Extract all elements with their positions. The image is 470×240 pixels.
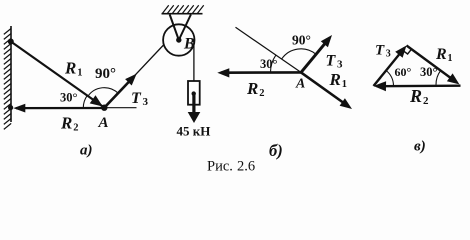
(b) force R2 shaft [221,71,301,74]
wall hatching [4,28,11,129]
force T3 arrow shaft [104,80,130,108]
label A [98,115,109,131]
svg-text:A: A [295,76,305,91]
pin joint at wall (R2 anchor) [8,105,13,110]
svg-text:45 кН: 45 кН [177,123,211,138]
(b) label R2 [246,79,264,99]
svg-text:R: R [246,79,258,98]
force R2 line [16,107,104,109]
(v) force R2 shaft (triangle bottom) [377,84,461,87]
svg-text:T: T [375,43,385,59]
caption a) [80,143,93,159]
label 45 kN [177,123,211,138]
(b) thin reference line through A [236,27,302,72]
(v) arc of 30 degree angle [436,71,441,85]
svg-text:T: T [326,53,337,70]
pin joint at wall (R1 anchor) [8,39,14,45]
(v) arrowhead T3 [395,46,406,58]
weight block [188,81,200,105]
svg-text:в): в) [414,139,426,155]
(b) arc of 90 degree angle [282,49,316,59]
(b) force R1 shaft [301,72,348,106]
(b) arrowhead R2 [217,68,229,77]
(v) arrowhead R1 [447,73,460,84]
(v) label R2 [409,86,429,107]
(b) label 30deg [260,57,278,71]
figure caption Ris. 2.6 [207,159,255,175]
weight force arrowhead [188,112,201,123]
svg-text:1: 1 [448,53,453,64]
svg-text:30°: 30° [420,65,438,79]
(v) arrowhead R2 [374,81,387,91]
(b) label 90deg [292,33,311,48]
svg-text:2: 2 [423,95,429,107]
(b) force T3 shaft [301,40,328,73]
svg-text:3: 3 [143,96,149,108]
arc of 90 degree angle at A [88,88,118,97]
svg-text:30°: 30° [60,91,78,105]
pulley bracket left arm [170,15,179,41]
arc of 30 degree angle at A [83,96,87,108]
weight center dot [192,91,196,95]
ceiling support line [162,13,203,15]
ceiling hatching [163,5,204,13]
rope from A to pulley B [104,45,163,108]
(v) force R1 shaft [407,46,456,82]
svg-text:A: A [98,115,109,131]
pulley axle dot [176,37,181,42]
node A (dot) [101,105,107,111]
(v) label 60deg [395,65,412,79]
svg-text:Рис.: Рис. [207,159,233,175]
svg-text:1: 1 [342,79,347,90]
svg-text:60°: 60° [395,65,412,79]
svg-text:2: 2 [73,123,78,134]
horizontal reference line at A [104,107,136,109]
(v) right angle mark [403,49,412,54]
label 30deg [60,91,78,105]
force R1 rod/line [11,42,104,107]
label R1 [64,59,82,79]
caption b) [269,141,283,160]
svg-text:б): б) [269,141,283,160]
svg-text:R: R [64,59,76,78]
label 90deg [95,66,116,82]
pulley B [163,24,194,55]
svg-text:90°: 90° [292,33,311,48]
svg-text:2: 2 [259,88,264,99]
arrowhead of T3 [125,74,137,86]
svg-text:3: 3 [337,59,343,71]
(b) label R1 [329,70,347,90]
svg-text:R: R [435,46,447,63]
caption v) [414,139,426,155]
svg-text:3: 3 [386,49,391,60]
(v) label R1 [435,46,453,64]
(v) label T3 [375,43,391,60]
(b) label T3 [326,53,344,71]
weight force arrow shaft [192,94,195,114]
(b) arc of 30 degree angle [271,55,276,72]
pulley bracket right arm [179,15,191,41]
(b) arrowhead T3 [321,35,332,47]
arrowhead of R2 at wall [13,104,25,113]
svg-text:2.6: 2.6 [237,159,255,175]
label B [183,35,195,52]
svg-text:R: R [60,114,72,133]
(v) arc of 60 degree angle [386,71,393,86]
svg-text:1: 1 [77,68,82,79]
label R2 [60,114,78,134]
svg-text:а): а) [80,143,93,159]
(v) label 30deg [420,65,438,79]
arrowhead of R1 at A [90,95,103,106]
(b) label A [295,76,305,91]
svg-text:R: R [329,70,341,89]
svg-text:30°: 30° [260,57,278,71]
label T3 [131,90,149,108]
svg-text:R: R [409,86,422,106]
(v) force T3 shaft [374,48,405,86]
svg-text:B: B [183,35,195,52]
rope from pulley to weight [193,40,195,94]
svg-text:T: T [131,90,142,107]
svg-text:90°: 90° [95,66,116,82]
(b) arrowhead R1 [340,98,352,109]
wall (left support) [10,26,12,122]
